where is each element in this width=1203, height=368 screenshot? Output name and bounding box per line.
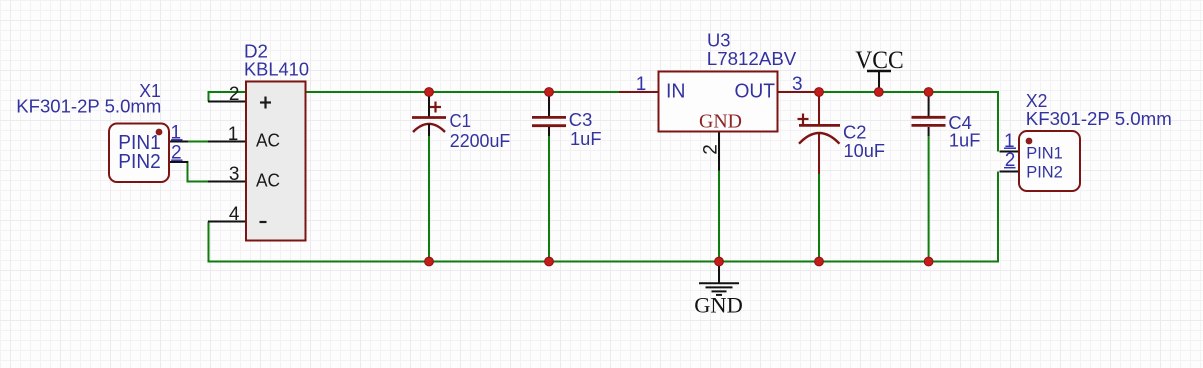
svg-text:GND: GND xyxy=(694,293,743,318)
connector X2 xyxy=(1000,90,1172,191)
svg-text:2: 2 xyxy=(229,84,240,105)
bottom plate xyxy=(912,124,946,127)
voltage regulator U3 xyxy=(619,30,818,171)
svg-text:3: 3 xyxy=(792,74,803,95)
VCC bar xyxy=(867,70,891,73)
pin 3 line xyxy=(778,91,819,93)
upper pin xyxy=(928,92,930,116)
wire X1 pin1 to D2 pin1 xyxy=(186,141,210,143)
upper pin xyxy=(428,92,430,117)
lower pin xyxy=(548,127,550,136)
wire C1 lower xyxy=(428,136,430,262)
body xyxy=(659,72,778,132)
lower pin xyxy=(428,124,430,136)
connector X1 xyxy=(16,80,188,182)
pin 1 line xyxy=(169,141,188,143)
svg-text:PIN2: PIN2 xyxy=(1026,162,1063,181)
wire bottom rail GND net xyxy=(209,172,999,262)
wire top rail net (D2 pin2 to X2 pin1 via C1,C3,U3,C2,VCC,C4) xyxy=(209,92,999,152)
top plate xyxy=(532,116,566,119)
wire U3 pin2 to GND rail xyxy=(718,171,720,262)
wire C4 lower xyxy=(928,136,930,262)
polarity + xyxy=(798,114,809,125)
bar 4 xyxy=(716,294,722,296)
capacitor C3 xyxy=(532,92,602,149)
stem xyxy=(718,262,720,283)
svg-text:3: 3 xyxy=(229,164,240,185)
top plate xyxy=(412,116,446,119)
pin1 marker dot xyxy=(156,129,163,136)
svg-text:KF301-2P 5.0mm: KF301-2P 5.0mm xyxy=(1026,109,1172,129)
svg-text:C1: C1 xyxy=(450,110,472,131)
body xyxy=(1019,131,1080,191)
pin 2 line xyxy=(718,132,720,171)
junction dot C3 top xyxy=(545,88,554,97)
svg-text:C3: C3 xyxy=(569,109,593,130)
pin label + xyxy=(260,97,271,109)
svg-text:PIN1: PIN1 xyxy=(1026,143,1063,162)
capacitor C4 xyxy=(912,92,981,151)
pin1 marker dot xyxy=(1026,138,1033,145)
top plate xyxy=(799,124,840,127)
bottom plate xyxy=(532,124,566,127)
lower pin xyxy=(818,133,820,174)
body xyxy=(109,124,169,183)
upper pin xyxy=(548,92,550,116)
pin number 2 underline xyxy=(1004,167,1016,169)
pin number 2 underline xyxy=(171,159,182,161)
pin label - xyxy=(260,221,267,223)
junction dot C1 top xyxy=(425,88,434,97)
bar 3 xyxy=(712,290,727,292)
svg-text:VCC: VCC xyxy=(855,47,904,74)
lower pin xyxy=(928,127,930,136)
junction dot C2 top xyxy=(815,88,824,97)
VCC stem xyxy=(878,71,880,92)
svg-text:GND: GND xyxy=(699,111,742,133)
body xyxy=(246,82,306,241)
svg-text:L7812ABV: L7812ABV xyxy=(707,48,797,69)
pin 4 line xyxy=(208,221,246,223)
ground GND xyxy=(694,262,743,318)
wire C3 lower xyxy=(548,136,550,262)
pin 1 line xyxy=(1000,151,1020,153)
junction dot C2 bottom xyxy=(815,257,824,266)
bottom plate arc xyxy=(413,124,445,132)
svg-text:4: 4 xyxy=(229,204,240,225)
bottom plate arc xyxy=(799,133,840,144)
power flag VCC xyxy=(855,47,904,92)
bar 1 xyxy=(699,282,739,284)
wire X1 pin2 to D2 pin3 xyxy=(186,162,210,182)
pin 2 line xyxy=(208,101,246,103)
capacitor C2 xyxy=(798,92,886,174)
svg-text:2: 2 xyxy=(701,144,722,155)
polarity + xyxy=(430,102,441,113)
junction dot C3 bottom xyxy=(545,257,554,266)
capacitor C1 xyxy=(412,92,510,151)
junction dot C4 bottom xyxy=(924,257,933,266)
pin 2 line xyxy=(169,161,188,163)
svg-text:PIN2: PIN2 xyxy=(118,151,161,173)
junction dot GND xyxy=(715,257,724,266)
upper pin xyxy=(818,92,820,125)
svg-text:2200uF: 2200uF xyxy=(450,130,511,151)
wire C2 lower xyxy=(818,174,820,262)
svg-text:KF301-2P 5.0mm: KF301-2P 5.0mm xyxy=(16,96,161,116)
bridge rectifier D2 xyxy=(208,41,309,241)
pin number 1 underline xyxy=(171,139,182,141)
svg-text:1: 1 xyxy=(636,74,647,95)
junction dot VCC xyxy=(874,88,883,97)
svg-text:10uF: 10uF xyxy=(844,140,886,161)
svg-text:1: 1 xyxy=(228,124,239,145)
junction dot C4 top xyxy=(924,88,933,97)
pin 1 line xyxy=(208,141,246,143)
svg-text:1uF: 1uF xyxy=(949,130,981,151)
svg-text:IN: IN xyxy=(666,81,686,103)
svg-text:OUT: OUT xyxy=(735,81,776,103)
svg-text:AC: AC xyxy=(256,169,280,190)
svg-text:AC: AC xyxy=(256,129,280,150)
pin number 1 underline xyxy=(1004,147,1016,149)
top plate xyxy=(912,116,946,119)
svg-text:X2: X2 xyxy=(1026,90,1048,111)
junction dot C1 bottom xyxy=(425,257,434,266)
svg-text:KBL410: KBL410 xyxy=(244,58,309,79)
bar 2 xyxy=(706,286,733,288)
svg-text:1uF: 1uF xyxy=(570,128,602,149)
pin 3 line xyxy=(208,181,246,183)
pin 2 line xyxy=(1000,171,1020,173)
pin 1 line xyxy=(619,91,659,93)
